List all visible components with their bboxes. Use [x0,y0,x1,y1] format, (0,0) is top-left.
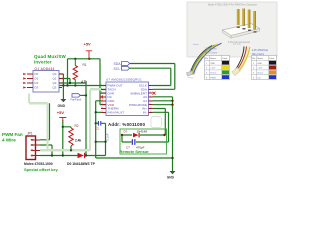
svg-text:15: 15 [150,107,152,109]
svg-text:Q3: Q3 [53,86,57,90]
svg-text:0.1uF: 0.1uF [106,133,110,141]
note box [151,117,162,128]
wire TACH highlight from mux [29,94,48,151]
wire JP1 pin2 [40,145,52,156]
wire VDD top rail [68,58,101,60]
right wire bundle [232,44,250,76]
svg-text:R1: R1 [83,63,87,67]
node mux pin2/3 [69,82,71,84]
node cap drop [104,141,106,143]
node D0 line FanFault [85,154,87,156]
node PWM rail GND [62,84,64,86]
svg-text:Wire Colors: Wire Colors [205,52,218,55]
svg-text:11: 11 [101,99,103,101]
svg-text:12: 12 [101,103,103,105]
wire mux pin3 to FanFault and D0 [59,83,86,156]
svg-text:4-Pin PWM Fan: 4-Pin PWM Fan [252,50,269,52]
wire R2 leads [63,127,71,151]
svg-text:SDA: SDA [114,62,122,66]
wire sensor left vertical [121,135,123,142]
left wire bundle [186,43,221,78]
svg-text:9: 9 [101,92,102,94]
node PWM-MODE tie [171,104,173,106]
capacitor C? [132,139,133,145]
svg-text:Addr: %0011000: Addr: %0011000 [108,122,145,127]
flag FanFault [71,94,82,102]
wire PWM rail [59,85,106,87]
ground symbol (right) [167,171,176,180]
resistor R2 [69,124,82,146]
svg-text:JP1: JP1 [27,131,33,135]
svg-text:Quad Mux/SW: Quad Mux/SW [34,54,67,59]
node GND vert FANFAULT [95,111,97,113]
svg-text:Color: Color [222,57,227,60]
svg-text:2.4k: 2.4k [75,139,81,143]
svg-text:FanFault: FanFault [71,98,82,102]
node GND vert C1 [95,122,97,124]
svg-text:D1: D1 [35,77,39,81]
wire sensor bottom rail [122,141,165,143]
svg-text:Inverter: Inverter [34,59,52,64]
svg-text:SCL: SCL [114,67,121,71]
node GND vert cap drop [95,141,97,143]
svg-text:Remote Sensor: Remote Sensor [120,149,150,154]
svg-text:4.7k: 4.7k [81,80,87,84]
node PWM rail left [66,84,68,86]
wire mux pin1 to GND [59,74,63,99]
wire SCL net [130,68,171,85]
svg-text:to fan: to fan [193,43,199,46]
svg-text:D?: D? [124,129,128,133]
svg-text:1N4148: 1N4148 [137,129,148,133]
svg-text:Q1: Q1 [53,77,57,81]
svg-text:+12V: +12V [210,68,216,70]
svg-text:GND: GND [257,63,262,65]
power +5V (lower left) [57,110,67,121]
svg-text:fan side: fan side [233,44,241,46]
svg-text:D2: D2 [35,81,39,85]
svg-text:Ctrl: Ctrl [257,76,261,79]
diode D0 [67,153,96,166]
flag SDA [114,62,130,67]
svg-text:+12V: +12V [257,68,263,70]
wire TACH highlight band [40,89,106,150]
svg-text:14: 14 [101,111,103,113]
svg-text:2: 2 [150,88,151,90]
power +5V (top) [84,41,93,58]
svg-text:Q0: Q0 [53,72,57,76]
svg-text:D0 1N4148WS TP: D0 1N4148WS TP [67,162,96,166]
svg-text:GND: GND [167,176,175,180]
node D0 line +5V [62,154,64,156]
connector JP1 [26,131,40,159]
node sensor right [163,134,165,136]
svg-text:6: 6 [150,103,151,105]
svg-text:Q2: Q2 [53,81,57,85]
svg-text:Color: Color [269,57,274,60]
svg-text:Molex 47053-1000 4-Pin PWM Fan: Molex 47053-1000 4-Pin PWM Fan Connector [208,4,257,7]
svg-text:Name: Name [210,58,217,60]
svg-text:16: 16 [150,111,152,113]
wire sensor top rail [122,134,165,136]
svg-text:Name: Name [257,58,264,60]
highlighted TACH net (pale) [29,89,106,150]
svg-text:4 Wire: 4 Wire [2,138,16,143]
wire FanFault flag [80,94,86,96]
node top rail +5V [88,58,90,60]
left color table [205,48,230,80]
wire VDD drop to IC [100,59,106,105]
svg-text:5: 5 [150,99,151,101]
node +5V-B branch [62,126,64,128]
wire left drop of top rail [67,59,69,86]
node FanFault [85,94,87,96]
wire +5V-B drop [62,120,64,156]
node R2 bottom on band [70,149,72,151]
pin SMBALERT x mark [153,92,156,95]
svg-text:U? AMC6821SDBQRG1: U? AMC6821SDBQRG1 [106,77,142,81]
svg-text:GND: GND [210,63,215,65]
svg-text:R2: R2 [75,124,79,128]
svg-text:10: 10 [101,96,103,98]
svg-text:+5V: +5V [57,110,65,115]
remote sensor group box [120,129,167,154]
svg-text:Molex 47053-1000: Molex 47053-1000 [24,162,53,166]
node sensor left [121,134,123,136]
svg-text:Sense: Sense [257,73,264,75]
svg-text:3: 3 [150,92,151,94]
wire JP1 pin4 up [40,103,50,140]
svg-text:7: 7 [101,84,102,86]
flag SCL [114,66,130,71]
wire GND vertical [96,101,101,158]
junction dots [51,58,107,157]
wire IN+ to sensor [153,109,166,136]
resistor R1 [73,59,87,86]
svg-text:FAN-FAULT: FAN-FAULT [108,110,125,114]
pin NC x mark [100,96,103,99]
node PWM rail R1 [74,84,76,86]
connector pins [237,9,256,30]
svg-text:Sense: Sense [210,73,217,75]
svg-text:13: 13 [101,107,103,109]
svg-text:8: 8 [101,88,102,90]
wire IN- to sensor [153,112,169,142]
node GND rail right [171,157,173,159]
svg-text:Special offset key: Special offset key [24,167,59,172]
ic Q1 [23,67,63,92]
svg-text:D3: D3 [35,86,39,90]
connector 3d body [223,24,260,36]
node top rail R1 [74,58,76,60]
capacitor C1 [96,121,110,141]
ic U? AMC6821SDBQRG1 [100,77,156,115]
wire GND bottom rail [96,157,173,159]
svg-text:D0: D0 [35,72,39,76]
svg-text:PWM Fan: PWM Fan [2,132,23,137]
svg-text:+5V: +5V [84,41,92,46]
svg-text:3-Wire Fan: 3-Wire Fan [205,48,217,51]
svg-text:4: 4 [150,96,151,98]
diode D? [133,133,139,138]
node A1 tie [171,100,173,102]
svg-text:IN-: IN- [143,110,147,114]
svg-text:GND: GND [58,104,66,108]
wire C1 right lead and drop [96,123,106,155]
wire A0 A1 PWM-MODE to GND [153,97,173,171]
wire SDA net [130,64,175,90]
svg-text:C1: C1 [96,127,100,131]
svg-text:PWM: PWM [210,77,216,79]
node D0 line pin2 [51,154,53,156]
svg-text:1: 1 [150,84,151,86]
wire mux pin2 [59,79,70,84]
ground symbol (left) [58,99,67,108]
wire JP1 pin1 / D0 line [40,155,106,157]
right color table [252,50,277,80]
